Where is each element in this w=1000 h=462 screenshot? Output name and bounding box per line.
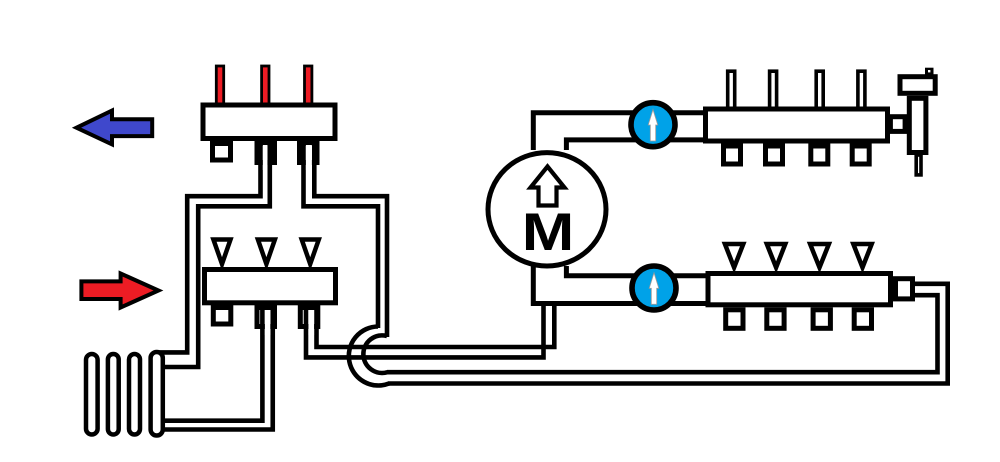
manifold M1 stub 3 <box>811 146 828 164</box>
wire: pipe TLM stub3 -> right vertical to bridge (left wall) <box>304 141 388 337</box>
manifold TLM stub S1 <box>213 144 231 161</box>
pump P1 (blue) <box>631 103 675 147</box>
up arrow inside M <box>531 167 565 206</box>
valve triangle 1 on M2 <box>725 244 743 268</box>
manifold M2 stub 1 <box>726 310 743 329</box>
wire: channel opening through stub TLM-S3 <box>306 145 312 170</box>
wire: bridge arc outer wall <box>349 327 389 386</box>
manifold M1 stub 1 <box>724 146 741 164</box>
wire: bottom long pipe -> up right -> manifold M2 extension (inner wall) <box>387 284 948 384</box>
red arrow (flow in, pointing right) <box>81 274 158 308</box>
flow tube 4 on manifold M1 <box>858 71 865 110</box>
radiator bar 2 <box>108 354 119 435</box>
wire: same pipe right wall <box>317 305 555 347</box>
air vent connector square <box>890 117 905 132</box>
valve triangle 3 on LLM <box>302 240 319 265</box>
red pin 2 on top manifold <box>262 66 269 107</box>
svg-text:M: M <box>522 203 575 262</box>
label M <box>522 203 575 262</box>
wire: channel opening through stub LLM-S3 <box>308 310 314 335</box>
manifold M2 stub 4 <box>854 310 871 329</box>
manifold LLM stub S2 (piped) <box>257 308 275 327</box>
wire: channel opening through stub TLM-S2 <box>263 145 268 170</box>
red pin 3 on top manifold <box>305 66 312 107</box>
wire: same pipe inner wall <box>566 266 710 276</box>
manifold LLM stub S3 (piped) <box>300 308 318 327</box>
wire: pipe LLM stub2 -> radiator bottom (left wall) <box>157 305 273 430</box>
manifold LLM body <box>205 270 336 303</box>
manifold M2 body (bottom right) <box>708 274 891 305</box>
red pin 1 on top manifold <box>216 66 223 107</box>
flow tube 3 on manifold M1 <box>816 71 823 110</box>
manifold M1 stub 2 <box>766 146 783 164</box>
manifold TLM body <box>203 105 335 139</box>
valve triangle 2 on LLM <box>258 240 275 265</box>
air vent drain stem <box>916 155 921 175</box>
wire: pipe LLM stub3 -> riser to pump feed (left wall) <box>306 305 554 357</box>
wire: channel opening through stub LLM-S2 <box>265 310 270 335</box>
wire: bridge arc inner wall <box>363 335 387 373</box>
air vent cap <box>900 77 935 94</box>
air vent body <box>909 98 926 152</box>
radiator bar 4 (front) <box>151 352 163 436</box>
flow tube 2 on manifold M1 <box>770 71 777 110</box>
flow tube 1 on manifold M1 <box>728 71 735 110</box>
wire: wide pipe M top -> pump P1 -> manifold M1 (outer wall) <box>533 113 708 150</box>
motor/pump unit M (circle) <box>488 153 606 266</box>
wire: wide pipe M bottom -> pump P2 -> manifold M2 (outer wall) <box>533 266 710 304</box>
blue arrow (flow out, pointing left) <box>77 111 153 145</box>
manifold LLM stub S1 <box>213 308 231 325</box>
manifold M2 right extension <box>896 279 913 299</box>
air vent top nipple <box>925 68 934 75</box>
radiator bar 1 <box>86 354 98 435</box>
wire: pipe TLM stub2 -> left vertical -> radiator top (outer wall) <box>157 141 270 367</box>
wire: same pipe inner wall <box>566 140 708 150</box>
manifold M2 stub 3 <box>813 310 830 329</box>
manifold M1 stub 4 <box>852 146 869 164</box>
valve triangle 3 on M2 <box>810 244 829 268</box>
valve triangle 1 on LLM <box>213 240 230 265</box>
pump P2 (blue) <box>632 266 676 310</box>
manifold M2 stub 2 <box>767 310 784 329</box>
wire: same pipe right wall <box>157 305 273 430</box>
radiator bar 3 <box>129 354 140 435</box>
wire: same pipe inner wall <box>157 141 270 367</box>
valve triangle 4 on M2 <box>853 244 871 268</box>
wire: same pipe outer wall <box>388 284 948 384</box>
manifold M1 body (top right) <box>706 109 888 141</box>
wire: same pipe right wall <box>314 141 387 337</box>
valve triangle 2 on M2 <box>767 244 786 268</box>
manifold TLM stub S3 (piped) <box>300 144 318 163</box>
manifold TLM stub S2 (piped) <box>257 144 275 163</box>
